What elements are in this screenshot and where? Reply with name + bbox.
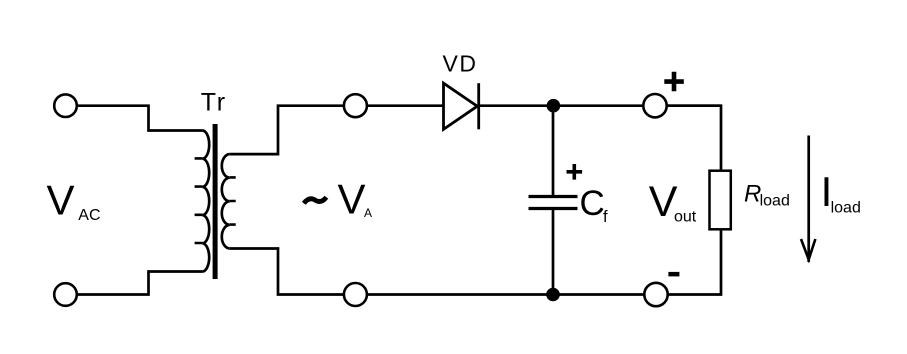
- label Rload: [744, 181, 790, 210]
- node junction dot top: [547, 99, 561, 113]
- svg-text:VD: VD: [443, 50, 478, 76]
- terminal circle secondary top: [344, 94, 367, 117]
- terminal circle output plus: [643, 94, 666, 117]
- svg-text:load: load: [760, 193, 790, 210]
- svg-text:Tr: Tr: [201, 88, 227, 116]
- label Vout: [649, 178, 697, 226]
- terminal circle output minus: [644, 283, 667, 306]
- terminal circle bottom-left: [54, 283, 77, 306]
- wire secondary top to terminal: [230, 106, 444, 154]
- wire load branch bottom: [668, 230, 721, 295]
- label Iload: [821, 168, 861, 217]
- label ~ VA: [304, 176, 372, 223]
- wire capacitor branch top: [552, 106, 555, 197]
- label minus output: [668, 272, 679, 277]
- terminal circle top-left: [54, 94, 77, 117]
- wire diode cathode to load top: [477, 104, 721, 107]
- svg-text:out: out: [674, 209, 697, 226]
- label Cf: [580, 184, 609, 226]
- transformer primary winding: [195, 131, 210, 272]
- svg-text:C: C: [580, 184, 605, 223]
- label VAC: [47, 176, 101, 224]
- svg-text:A: A: [364, 206, 372, 220]
- capacitor Cf bottom plate: [529, 207, 578, 210]
- wire secondary bottom to terminal: [230, 249, 650, 295]
- diode VD triangle: [444, 83, 478, 129]
- wire load branch top: [667, 106, 721, 170]
- svg-text:V: V: [338, 176, 366, 223]
- transformer secondary winding: [222, 154, 236, 248]
- wire top-left from terminal to primary winding: [65, 106, 202, 131]
- transformer core: [213, 124, 218, 279]
- svg-text:AC: AC: [78, 207, 100, 224]
- diode VD cathode bar: [477, 83, 480, 129]
- label VD: [443, 50, 478, 76]
- capacitor plus polarity mark: [567, 164, 583, 180]
- terminal circle secondary bottom: [344, 283, 367, 306]
- node junction dot bottom: [546, 288, 560, 302]
- svg-text:load: load: [831, 200, 861, 217]
- current arrow Iload: [801, 136, 815, 263]
- label plus output: [664, 72, 684, 92]
- wire capacitor branch bottom: [552, 209, 555, 295]
- resistor Rload body: [710, 171, 731, 230]
- svg-text:f: f: [603, 208, 608, 226]
- label Tr: [201, 88, 227, 116]
- capacitor Cf top plate: [529, 195, 578, 198]
- svg-text:V: V: [47, 176, 75, 223]
- wire bottom-left from terminal to primary winding: [65, 272, 202, 295]
